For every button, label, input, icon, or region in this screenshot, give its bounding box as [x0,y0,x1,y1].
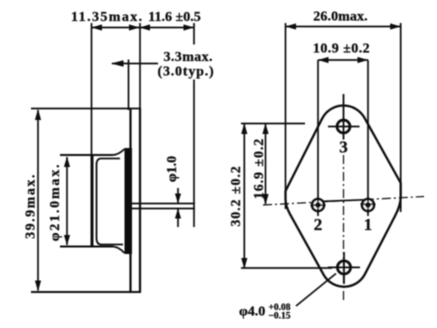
can shoulder top [113,149,125,155]
svg-text:10.9 ±0.2: 10.9 ±0.2 [313,42,370,57]
svg-text:26.0max.: 26.0max. [313,10,367,25]
arrowhead right toward x=139.5 [129,24,140,30]
svg-text:30.2 ±0.2: 30.2 ±0.2 [229,165,244,226]
3.3max arrow leader [112,63,158,65]
flange top edge + extension [31,108,141,110]
extension line / can end face (left) [91,23,93,155]
svg-text:2: 2 [314,215,323,234]
line between pins [319,200,367,202]
svg-text:φ1.0: φ1.0 [165,156,180,182]
phi1.0 dim vertical line upper [177,188,179,203]
extension line middle (flange right face above) [139,23,141,109]
arrowhead right-segment left at x=139.5 [140,24,151,30]
flange right face [139,109,141,293]
26.0 right extension line [400,23,402,212]
arrowhead far right at x=194 [184,24,195,30]
mounting hole (bottom) [337,261,350,274]
phi4.0 leader line [296,274,336,307]
svg-text:−0.15: −0.15 [269,312,291,322]
39.9max dimension line [37,110,39,291]
svg-text:3: 3 [339,138,348,157]
svg-text:(3.0typ.): (3.0typ.) [158,65,215,80]
can top edge + extension [60,154,113,156]
svg-text:16.9 ±0.2: 16.9 ±0.2 [252,138,267,199]
flange left face extension up [128,60,130,111]
pin 2 [311,197,326,213]
svg-text:11.35max.: 11.35max. [71,10,144,25]
svg-text:φ4.0: φ4.0 [239,305,265,320]
can shoulder bottom [113,247,125,254]
mounting hole 3 (top) [337,120,350,133]
can rim weld band [125,148,133,254]
can inner line [97,159,124,245]
26.0 left extension line [285,23,287,209]
vertical center line (dash-dot) [343,155,345,300]
svg-text:39.9max.: 39.9max. [24,173,39,239]
horizontal center line (dash-dot) [263,197,424,206]
extension line right (lead end) [193,23,195,227]
can end face bold [91,154,94,248]
flange left face [129,109,131,293]
can bottom edge + extension [60,246,113,248]
svg-text:11.6 ±0.5: 11.6 ±0.5 [148,10,200,25]
svg-text:φ21.0max.: φ21.0max. [48,163,63,242]
svg-text:1: 1 [364,215,373,234]
pin1 extension line [367,60,369,216]
30.2 dimension line [243,124,245,268]
26.0 dimension line [286,26,401,28]
phi21.0 dimension line [66,157,68,245]
16.9 dimension line [265,124,267,204]
arrowhead left at x=91.5 [92,24,103,30]
flange outline [286,105,401,286]
lead bottom edge [131,208,196,210]
svg-text:3.3max.: 3.3max. [164,50,213,65]
pin2 extension line [317,60,319,216]
10.9 dimension line [318,59,368,61]
flange bottom edge + extension [31,291,141,293]
phi1.0 dim vertical line lower [177,209,179,227]
30.2 bottom extension line [241,267,332,269]
pin 1 [361,197,376,213]
lead (pin) top edge [131,203,196,205]
top dimension line [92,27,195,29]
30.2 top extension line [241,123,305,125]
